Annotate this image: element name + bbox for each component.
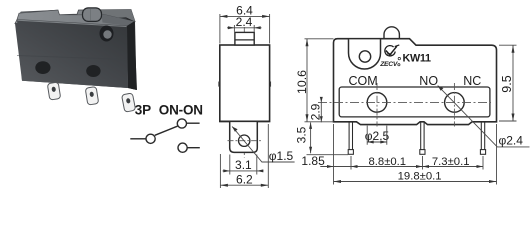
front view plunger bump bbox=[384, 27, 399, 39]
front view pin 1 bbox=[349, 123, 352, 150]
svg-text:φ2.5: φ2.5 bbox=[365, 129, 390, 143]
side view body bottom edge bbox=[220, 120, 270, 122]
svg-text:TM: TM bbox=[387, 53, 392, 57]
svg-text:7.3±0.1: 7.3±0.1 bbox=[432, 156, 470, 168]
svg-text:3.5: 3.5 bbox=[295, 126, 309, 143]
brand logo bbox=[385, 45, 401, 60]
switch photo right side face bbox=[127, 22, 137, 91]
svg-text:9.5: 9.5 bbox=[500, 75, 514, 92]
side view lug hole bbox=[239, 135, 250, 146]
switch photo pin 3 bbox=[122, 93, 136, 112]
bottom dimension line 1.85/8.8/7.3 bbox=[351, 156, 483, 170]
front view terminal recess bbox=[339, 87, 490, 117]
svg-text:2.4: 2.4 bbox=[236, 15, 253, 29]
switch photo front hole left bbox=[35, 61, 50, 74]
switch photo top face right darker part bbox=[101, 10, 135, 22]
svg-text:3.1: 3.1 bbox=[235, 158, 252, 172]
front view pivot hole bbox=[359, 51, 370, 62]
switch photo button bbox=[83, 8, 102, 22]
svg-text:φ2.4: φ2.4 bbox=[498, 134, 523, 148]
front view NC hole bbox=[445, 93, 465, 113]
side view left nub bbox=[219, 82, 220, 86]
switch photo top face right darker part bbox=[102, 14, 135, 26]
front view COM hole bbox=[367, 93, 387, 113]
side view body bbox=[220, 45, 270, 122]
side view right nub bbox=[270, 82, 271, 86]
switch photo top face bbox=[17, 10, 134, 26]
schematic NO wire bbox=[187, 122, 200, 124]
svg-text:8.8±0.1: 8.8±0.1 bbox=[368, 156, 406, 168]
schematic common wire bbox=[130, 138, 146, 140]
horizontal centerline bbox=[318, 101, 491, 103]
switch photo front hole right bbox=[86, 65, 100, 77]
svg-text:KW11: KW11 bbox=[403, 53, 431, 65]
svg-text:NO: NO bbox=[419, 74, 438, 88]
svg-text:COM: COM bbox=[349, 74, 378, 88]
schematic common terminal bbox=[146, 134, 155, 143]
switch photo front face bbox=[15, 17, 128, 88]
leader phi2.4 bbox=[438, 86, 530, 147]
schematic NC terminal bbox=[178, 143, 187, 152]
svg-text:3P: 3P bbox=[135, 103, 151, 118]
switch photo lever recess bbox=[100, 26, 114, 42]
schematic NC wire bbox=[188, 147, 200, 149]
side view button bbox=[235, 32, 254, 45]
switch photo pin 2 bbox=[85, 87, 99, 106]
svg-text:NC: NC bbox=[463, 74, 481, 88]
side view bottom lug bbox=[230, 122, 258, 153]
svg-text:6.2: 6.2 bbox=[236, 172, 253, 186]
switch photo right side face bbox=[126, 17, 137, 90]
schematic NO terminal bbox=[177, 119, 186, 128]
front view lever pivot cutout bbox=[349, 39, 381, 69]
side view centerline bbox=[243, 27, 245, 158]
svg-text:φ1.5: φ1.5 bbox=[269, 149, 294, 163]
front view pin 2 bbox=[421, 123, 424, 150]
svg-text:19.8±0.1: 19.8±0.1 bbox=[398, 170, 442, 182]
switch photo pin 1 bbox=[47, 82, 60, 100]
side view button divider bbox=[235, 39, 254, 41]
svg-text:ON-ON: ON-ON bbox=[159, 103, 203, 118]
front view pin 3 bbox=[481, 123, 484, 150]
switch photo front face bbox=[17, 20, 128, 89]
switch photo top face bbox=[15, 10, 135, 24]
leader phi1.5 bbox=[232, 127, 295, 163]
schematic lever bbox=[155, 126, 178, 135]
NC hole vertical centerline bbox=[453, 83, 455, 127]
switch photo front top edge highlight bbox=[18, 20, 127, 26]
COM hole vertical centerline bbox=[376, 83, 378, 127]
side view lug hole centerline bbox=[228, 140, 262, 142]
svg-text:ZECV: ZECV bbox=[379, 61, 399, 68]
front view body outline bbox=[334, 39, 497, 125]
switch photo mold line bbox=[17, 56, 127, 60]
